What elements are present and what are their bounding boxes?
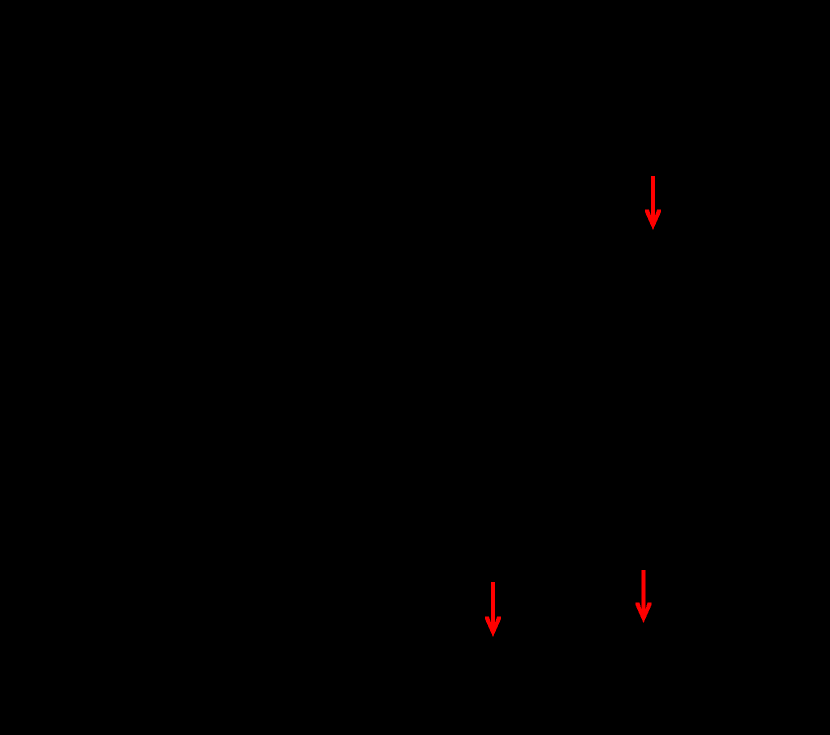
wire source upper (380,250)-(380,412): [379, 250, 381, 412]
node B (junction of branch 1 with top rail): [490, 247, 497, 254]
wire branch 2 upper (644,250)-(644,330): [643, 250, 645, 330]
node IN (input terminal): [649, 136, 657, 144]
voltage source V1: [352, 412, 408, 468]
node E (junction of branch 2 with bottom rail): [641, 657, 648, 664]
node D (junction of branch 1 with bottom rail): [490, 657, 497, 664]
wire branch 1 lower (493,450)-(493,660): [492, 450, 494, 660]
wire input feed (653,140)-(653,250): [652, 140, 654, 250]
wire bottom rail (380,660)-(653,660): [380, 659, 653, 661]
resistor R2: [637, 330, 651, 450]
current arrow I2 (branch 2 current, on lower branch-2 wire): [636, 570, 652, 623]
wire branch 2 lower (644,450)-(644,660): [643, 450, 645, 660]
current arrow I (total current, on input feed wire): [645, 176, 661, 230]
node C (junction of branch 2 with top rail): [641, 247, 648, 254]
wire top rail (380,250)-(653,250): [380, 249, 653, 251]
resistor R1: [486, 330, 500, 450]
current arrow I1 (branch 1 current, on lower branch-1 wire): [485, 582, 501, 637]
wire branch 1 upper (493,250)-(493,330): [492, 250, 494, 330]
wire source lower (380,468)-(380,660): [379, 468, 381, 660]
ground: [546, 660, 574, 692]
